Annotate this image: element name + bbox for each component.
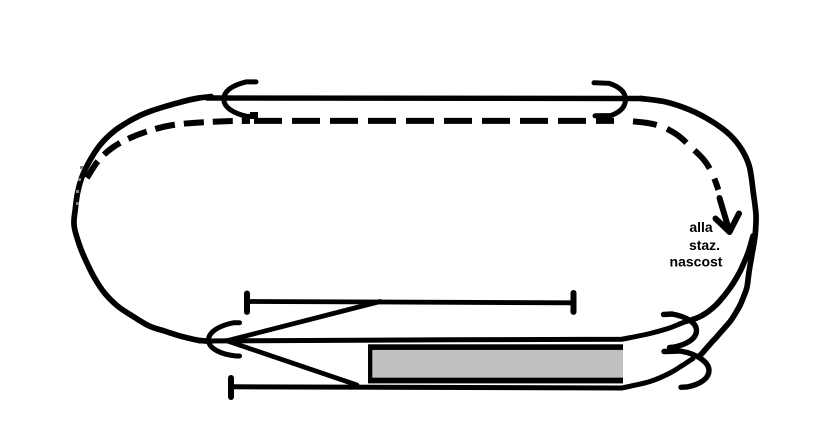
siding end tick right (571, 293, 577, 312)
wire: dashed hidden track, straight part (254, 118, 614, 124)
lower hook at right end of bottom track (664, 351, 709, 387)
wire: diagonal to bottom track (226, 341, 357, 386)
wire: right curve of oval (outer, ends at lower hook) (641, 99, 756, 356)
platform rectangle (368, 344, 623, 383)
junction bracket at station throat (209, 323, 240, 356)
svg-text:alla: alla (689, 219, 713, 235)
wire: left return curve of oval (74, 97, 211, 342)
wire: station main line (199, 320, 691, 341)
wire: bottom stub track (231, 359, 693, 389)
wire: dashed hidden track, right curved part (633, 121, 718, 189)
wire: dashed hidden track, left curved part (87, 121, 250, 178)
wire: inner right curve (ends at upper hook) (693, 236, 754, 320)
wire: top siding (248, 302, 573, 303)
stray ink speck near start of dashed line (250, 112, 258, 119)
right parenthesis mark at top straight (594, 83, 626, 116)
bottom track end tick (228, 378, 234, 397)
arrow head of hidden track (716, 198, 740, 232)
wire: diagonal to top siding (228, 302, 380, 341)
siding end tick left (244, 294, 250, 312)
svg-text:nascost: nascost (670, 254, 723, 270)
wire: top straight main line (207, 95, 641, 101)
left parenthesis mark at top straight (224, 82, 256, 117)
label: alla staz. nascost (670, 219, 723, 270)
upper hook at right end of station line (664, 314, 697, 348)
svg-text:staz.: staz. (689, 237, 720, 253)
eraser speckles where dashed line merges left curve (76, 166, 83, 205)
